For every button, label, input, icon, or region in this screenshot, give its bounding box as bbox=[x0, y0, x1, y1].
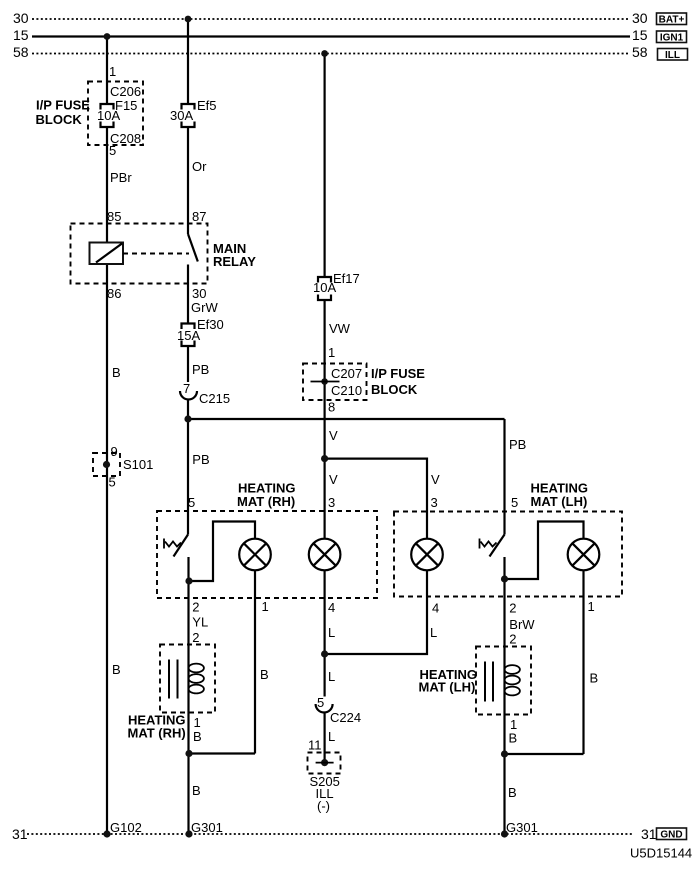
svg-text:MAT (RH): MAT (RH) bbox=[237, 494, 295, 509]
svg-text:15: 15 bbox=[13, 27, 29, 43]
svg-text:C215: C215 bbox=[199, 391, 230, 406]
svg-text:7: 7 bbox=[183, 381, 190, 396]
svg-text:V: V bbox=[329, 472, 338, 487]
svg-text:1: 1 bbox=[588, 599, 595, 614]
svg-text:10A: 10A bbox=[313, 280, 336, 295]
svg-text:30: 30 bbox=[192, 286, 206, 301]
svg-text:GND: GND bbox=[660, 830, 682, 841]
svg-text:BLOCK: BLOCK bbox=[36, 112, 83, 127]
svg-text:C207: C207 bbox=[331, 366, 362, 381]
svg-text:BrW: BrW bbox=[509, 617, 535, 632]
svg-text:L: L bbox=[430, 625, 437, 640]
svg-text:(-): (-) bbox=[317, 799, 330, 814]
svg-text:B: B bbox=[112, 365, 121, 380]
svg-text:5: 5 bbox=[109, 143, 116, 158]
svg-text:2: 2 bbox=[509, 601, 516, 616]
svg-text:ILL: ILL bbox=[665, 50, 680, 61]
svg-text:L: L bbox=[328, 669, 335, 684]
svg-text:B: B bbox=[193, 729, 202, 744]
svg-text:B: B bbox=[590, 671, 599, 686]
svg-text:5: 5 bbox=[188, 495, 195, 510]
svg-text:1: 1 bbox=[194, 715, 201, 730]
svg-text:RELAY: RELAY bbox=[213, 254, 256, 269]
svg-text:GrW: GrW bbox=[191, 300, 218, 315]
svg-text:30: 30 bbox=[13, 10, 29, 26]
svg-text:1: 1 bbox=[109, 64, 116, 79]
svg-text:B: B bbox=[508, 785, 517, 800]
svg-text:3: 3 bbox=[431, 495, 438, 510]
svg-text:VW: VW bbox=[329, 321, 351, 336]
svg-text:V: V bbox=[431, 472, 440, 487]
svg-text:L: L bbox=[328, 625, 335, 640]
svg-text:BAT+: BAT+ bbox=[659, 15, 685, 26]
svg-text:C206: C206 bbox=[110, 84, 141, 99]
svg-text:86: 86 bbox=[107, 286, 121, 301]
svg-text:IGN1: IGN1 bbox=[660, 33, 684, 44]
svg-text:1: 1 bbox=[328, 345, 335, 360]
svg-text:4: 4 bbox=[328, 600, 335, 615]
svg-text:PB: PB bbox=[509, 437, 526, 452]
svg-text:5: 5 bbox=[317, 695, 324, 710]
svg-text:5: 5 bbox=[511, 495, 518, 510]
svg-text:B: B bbox=[192, 783, 201, 798]
svg-text:I/P FUSE: I/P FUSE bbox=[371, 366, 425, 381]
svg-text:G301: G301 bbox=[191, 820, 223, 835]
svg-text:BLOCK: BLOCK bbox=[371, 382, 418, 397]
svg-text:Or: Or bbox=[192, 159, 207, 174]
svg-text:C210: C210 bbox=[331, 383, 362, 398]
svg-text:2: 2 bbox=[192, 600, 199, 615]
svg-text:PB: PB bbox=[192, 452, 209, 467]
svg-text:58: 58 bbox=[13, 44, 29, 60]
svg-text:Ef17: Ef17 bbox=[333, 271, 360, 286]
svg-text:15: 15 bbox=[632, 27, 648, 43]
svg-text:MAT (LH): MAT (LH) bbox=[419, 680, 476, 695]
svg-text:V: V bbox=[329, 428, 338, 443]
svg-text:2: 2 bbox=[509, 632, 516, 647]
svg-text:4: 4 bbox=[432, 601, 439, 616]
svg-text:MAT (RH): MAT (RH) bbox=[128, 726, 186, 741]
svg-text:L: L bbox=[328, 729, 335, 744]
svg-text:5: 5 bbox=[109, 475, 116, 490]
svg-text:8: 8 bbox=[328, 400, 335, 415]
svg-text:S101: S101 bbox=[123, 457, 153, 472]
svg-text:PB: PB bbox=[192, 362, 209, 377]
svg-text:Ef30: Ef30 bbox=[197, 317, 224, 332]
svg-text:2: 2 bbox=[192, 630, 199, 645]
svg-text:1: 1 bbox=[262, 599, 269, 614]
svg-text:G102: G102 bbox=[110, 820, 142, 835]
svg-text:87: 87 bbox=[192, 209, 206, 224]
svg-text:I/P FUSE: I/P FUSE bbox=[36, 98, 90, 113]
svg-text:U5D15144: U5D15144 bbox=[630, 846, 692, 861]
svg-text:58: 58 bbox=[632, 44, 648, 60]
svg-text:B: B bbox=[509, 731, 518, 746]
svg-text:11: 11 bbox=[308, 738, 322, 753]
svg-text:30: 30 bbox=[632, 10, 648, 26]
svg-text:G301: G301 bbox=[506, 820, 538, 835]
svg-text:10A: 10A bbox=[97, 108, 120, 123]
svg-text:B: B bbox=[260, 667, 269, 682]
svg-text:31: 31 bbox=[641, 826, 657, 842]
svg-text:MAT (LH): MAT (LH) bbox=[531, 494, 588, 509]
svg-text:9: 9 bbox=[111, 444, 118, 459]
svg-text:15A: 15A bbox=[177, 328, 200, 343]
svg-text:PBr: PBr bbox=[110, 170, 132, 185]
svg-text:31: 31 bbox=[12, 826, 28, 842]
svg-text:3: 3 bbox=[328, 495, 335, 510]
svg-text:C224: C224 bbox=[330, 710, 361, 725]
svg-text:85: 85 bbox=[107, 209, 121, 224]
svg-text:YL: YL bbox=[192, 615, 208, 630]
svg-text:B: B bbox=[112, 662, 121, 677]
svg-text:30A: 30A bbox=[170, 108, 193, 123]
svg-text:Ef5: Ef5 bbox=[197, 98, 217, 113]
